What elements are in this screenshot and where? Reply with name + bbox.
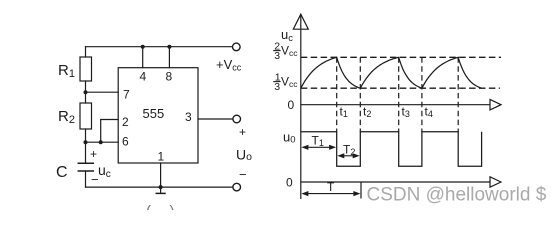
svg-text:2: 2 bbox=[122, 115, 129, 129]
wire left branch down to R1 bbox=[85, 47, 87, 57]
svg-text:uc: uc bbox=[281, 27, 293, 44]
svg-text:uc: uc bbox=[98, 162, 111, 180]
svg-text:R1: R1 bbox=[58, 62, 75, 80]
svg-text:R2: R2 bbox=[58, 108, 75, 126]
junction dot pin2 branch bbox=[99, 140, 103, 144]
wire branch up to pin 2 bbox=[101, 120, 119, 143]
svg-text:t2: t2 bbox=[363, 105, 371, 120]
resistor R1 bbox=[80, 57, 92, 81]
T boundary tick bbox=[360, 182, 362, 199]
svg-text:t3: t3 bbox=[402, 105, 410, 120]
axis uc vertical bbox=[300, 14, 302, 199]
wire bottom rail bbox=[86, 186, 233, 188]
svg-text:(: ( bbox=[146, 203, 151, 210]
svg-text:−: − bbox=[239, 167, 247, 182]
wire pin 3 output bbox=[198, 118, 233, 120]
svg-text:CSDN @helloworld $: CSDN @helloworld $ bbox=[367, 185, 547, 206]
junction pin8 rail bbox=[167, 45, 171, 49]
svg-text:Uo: Uo bbox=[236, 147, 252, 164]
svg-text:+: + bbox=[90, 147, 97, 161]
T2 interval arrow bbox=[341, 155, 357, 157]
svg-text:u0: u0 bbox=[283, 130, 296, 146]
svg-text:4: 4 bbox=[140, 70, 147, 84]
axis uc horizontal bbox=[301, 104, 490, 106]
svg-text:+Vcc: +Vcc bbox=[216, 57, 242, 73]
svg-text:T: T bbox=[327, 180, 335, 194]
svg-text:t1: t1 bbox=[340, 105, 348, 120]
terminal output plus bbox=[233, 115, 241, 123]
junction pin1 rail bbox=[159, 185, 163, 189]
capacitor C bbox=[78, 162, 93, 164]
label 1/3 Vcc bbox=[273, 71, 298, 93]
u0 square wave bbox=[301, 132, 482, 167]
arrowhead right axis1 bbox=[490, 100, 501, 110]
wire pin 4 stub bbox=[142, 47, 144, 68]
wire pin 1 down bbox=[160, 163, 162, 193]
dashed vertical t2 bbox=[359, 57, 361, 132]
axis u0 horizontal bbox=[301, 181, 490, 183]
wire top supply rail bbox=[86, 46, 233, 48]
wire node A to pin 7 bbox=[86, 91, 119, 93]
wire pin 8 stub bbox=[168, 47, 170, 68]
wire node B to pin 6 bbox=[86, 141, 119, 143]
uc waveform curve bbox=[301, 57, 482, 88]
svg-text:1: 1 bbox=[158, 150, 165, 164]
arrowhead up bbox=[293, 14, 308, 29]
junction pin4 rail bbox=[141, 45, 145, 49]
node A junction dot bbox=[84, 90, 88, 94]
dashed vertical t4 bbox=[421, 57, 423, 132]
svg-text:0: 0 bbox=[286, 176, 293, 190]
label 2/3 Vcc bbox=[273, 40, 298, 61]
svg-text:3: 3 bbox=[274, 81, 280, 93]
dashed vertical t1 bbox=[336, 57, 338, 132]
svg-text:8: 8 bbox=[166, 70, 173, 84]
wire R2 to node B bbox=[85, 129, 87, 163]
svg-text:7: 7 bbox=[123, 88, 130, 102]
svg-text:Vcc: Vcc bbox=[281, 75, 298, 90]
svg-text:−: − bbox=[91, 172, 99, 187]
wire R1 to node A bbox=[85, 81, 87, 103]
arrowhead right axis2 bbox=[490, 177, 501, 187]
svg-text:C: C bbox=[56, 164, 68, 181]
svg-text:): ) bbox=[170, 203, 175, 210]
terminal +Vcc bbox=[233, 43, 241, 51]
svg-text:3: 3 bbox=[274, 50, 280, 62]
svg-text:T2: T2 bbox=[343, 143, 355, 158]
svg-text:Vcc: Vcc bbox=[281, 44, 298, 59]
svg-text:0: 0 bbox=[288, 98, 295, 112]
T interval arrow bbox=[305, 193, 357, 195]
ground bbox=[156, 192, 165, 194]
svg-text:3: 3 bbox=[185, 110, 192, 124]
svg-text:6: 6 bbox=[122, 135, 129, 149]
dashed 2/3 Vcc level bbox=[301, 56, 501, 58]
svg-text:+: + bbox=[239, 125, 246, 139]
svg-text:555: 555 bbox=[143, 106, 165, 121]
terminal output minus bbox=[233, 183, 241, 191]
dashed 1/3 Vcc level bbox=[301, 87, 500, 89]
resistor R2 bbox=[80, 103, 92, 129]
node B junction dot bbox=[84, 140, 88, 144]
svg-text:T1: T1 bbox=[312, 134, 324, 149]
svg-text:t4: t4 bbox=[425, 105, 433, 120]
T1 interval arrow bbox=[305, 146, 333, 148]
wire C to ground rail bbox=[85, 171, 87, 187]
dashed vertical t3 bbox=[398, 57, 400, 132]
dashed vertical t5 bbox=[457, 57, 459, 132]
op-amp U1 555 timer box bbox=[118, 68, 198, 163]
